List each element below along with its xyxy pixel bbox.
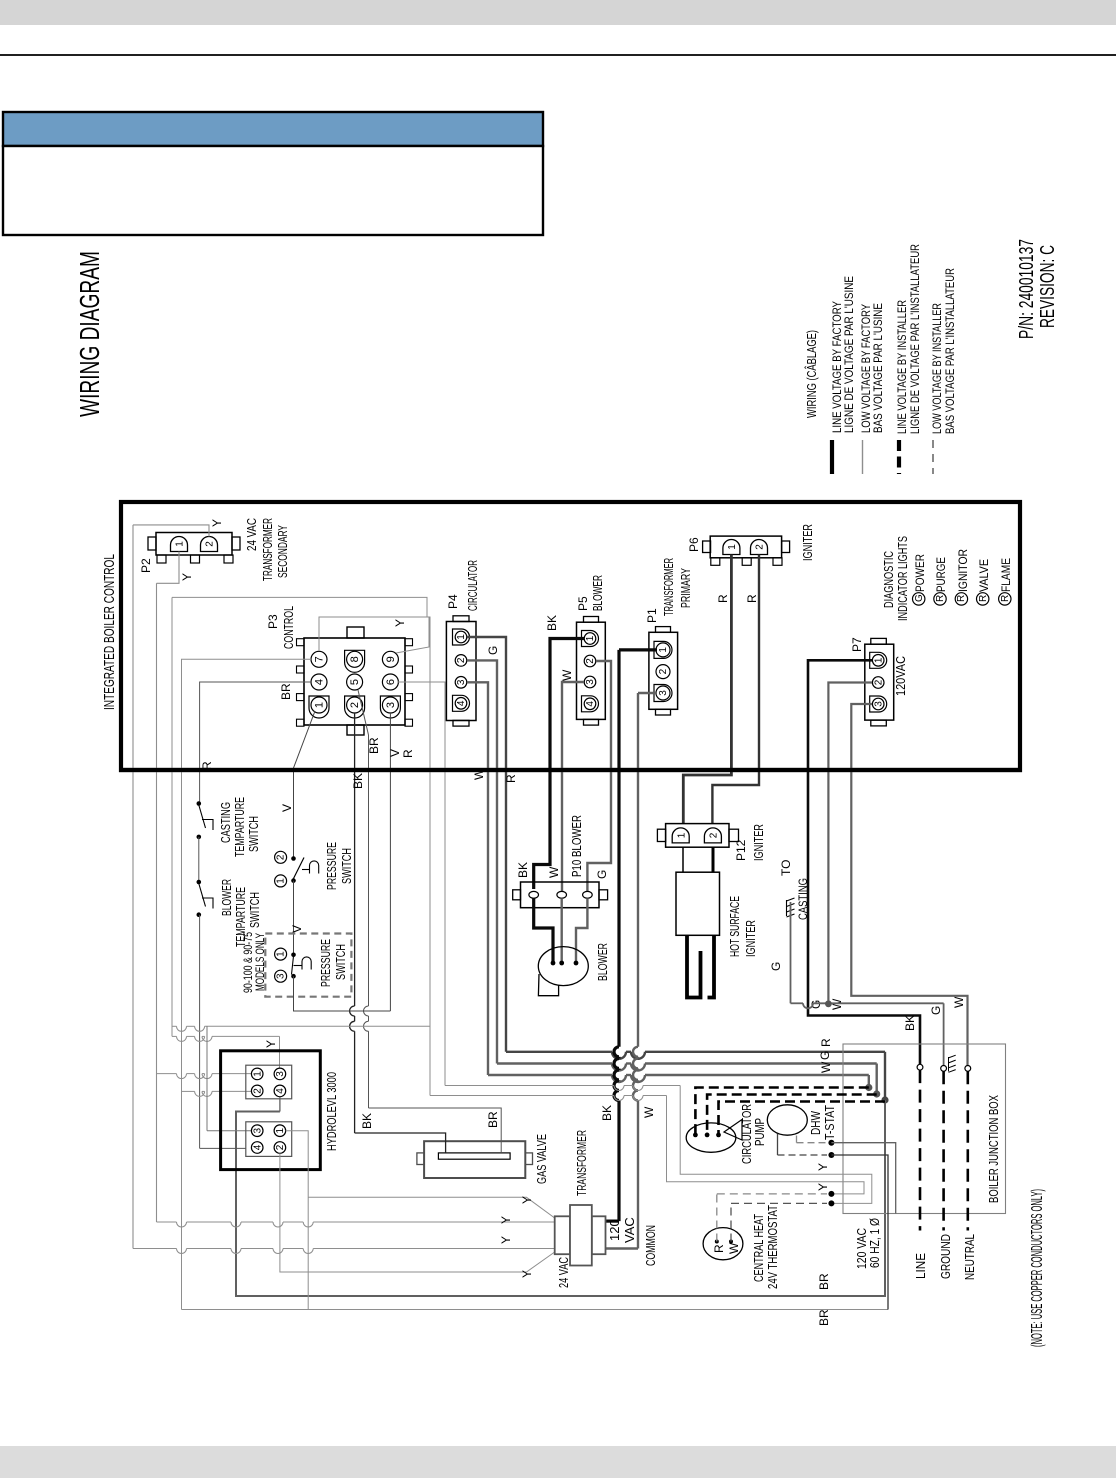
dashed wire NEUTRAL: [966, 1071, 969, 1230]
svg-text:120: 120: [607, 1219, 622, 1241]
connector P12 IGNITER: [666, 824, 729, 848]
wire Y slant to transformer top: [308, 1197, 555, 1218]
svg-text:TRANSFORMER: TRANSFORMER: [574, 1130, 589, 1196]
P1 pin 1: [654, 641, 672, 658]
P3 pin 3: [380, 696, 400, 718]
P5 pin 4: [582, 696, 599, 712]
svg-text:24 VAC: 24 VAC: [556, 1257, 571, 1288]
svg-text:W: W: [952, 996, 966, 1008]
P4 pin 2: [455, 655, 467, 667]
svg-text:REVISION: C: REVISION: C: [1037, 245, 1059, 328]
svg-text:2: 2: [252, 1088, 263, 1094]
P10 pin 1: [529, 891, 539, 898]
svg-text:BR: BR: [279, 683, 293, 700]
svg-text:P7: P7: [850, 637, 864, 652]
legend low voltage by factory sample line: [862, 440, 864, 474]
wire R6 to hydrolevel pin3 lower: [206, 1026, 208, 1130]
wire P3 pin9 Y: slant up to jog, over to left rail R3: [172, 597, 429, 653]
svg-text:GROUND: GROUND: [938, 1234, 953, 1279]
P3 pin 4: [311, 674, 327, 690]
wire P3 pin7 up and over to long descent: [319, 617, 430, 1096]
P3 pin 5: [347, 674, 363, 690]
P3 pin 2: [345, 696, 365, 718]
DHW T-STAT: [767, 1105, 807, 1135]
svg-text:SWITCH: SWITCH: [339, 848, 354, 884]
svg-text:3: 3: [385, 702, 397, 708]
svg-text:PRIMARY: PRIMARY: [678, 568, 693, 608]
svg-text:VAC: VAC: [622, 1217, 637, 1243]
svg-text:5: 5: [349, 679, 361, 685]
svg-text:G: G: [929, 1006, 943, 1015]
svg-text:BK: BK: [516, 862, 530, 878]
svg-text:1: 1: [873, 657, 884, 663]
svg-text:Y: Y: [180, 573, 194, 581]
wire bus H1 to thermostat descent: [172, 1025, 177, 1027]
wire P2 pin2 Y up-left: [133, 525, 209, 537]
wire BK into gas valve: [355, 1133, 446, 1153]
P5 pin 3: [584, 676, 596, 688]
wire rail R2 from P2.1 down: [156, 583, 158, 1222]
svg-text:BK: BK: [600, 1105, 614, 1121]
svg-text:BLOWER: BLOWER: [219, 879, 234, 916]
wire P5 pin2 to P10 pin3: [587, 661, 611, 891]
svg-text:POWER: POWER: [913, 554, 927, 592]
ground symbol at junction: [949, 1055, 956, 1072]
svg-text:G: G: [818, 1051, 832, 1060]
wire between pressure switch sections: [293, 881, 295, 955]
wire P3 pin3 V down: [389, 713, 391, 1011]
wire P4 pin1 R bus down and right to junction: [467, 637, 506, 1052]
models pressure switch pin 3: [275, 970, 287, 982]
hydrolevel 3000 box: [221, 1051, 321, 1170]
svg-text:60 HZ, 1 Ø: 60 HZ, 1 Ø: [867, 1218, 882, 1268]
svg-text:R: R: [401, 749, 415, 758]
P5 pin 2: [584, 655, 596, 667]
svg-text:WIRING (CÂBLAGE): WIRING (CÂBLAGE): [804, 330, 819, 418]
svg-text:R: R: [712, 1244, 726, 1253]
svg-text:2: 2: [276, 854, 287, 860]
pressure switch pin 2: [275, 851, 287, 863]
indicator IGNITOR: [955, 593, 967, 605]
pressure switch pin 1: [275, 875, 287, 887]
svg-text:Y: Y: [264, 1040, 278, 1048]
svg-text:W: W: [547, 866, 561, 878]
svg-text:8: 8: [349, 656, 361, 662]
wire hydrolevel lower pin2 Y down: [280, 1153, 555, 1272]
svg-text:1: 1: [276, 878, 287, 884]
wire P3 pin5 BR slant and down to gas valve: [358, 690, 369, 735]
indicator FLAME: [999, 593, 1011, 605]
P2 pin 1: [171, 537, 188, 552]
wire P1 pin1 BK down to transformer 120: [619, 648, 657, 651]
dashed wire GROUND: [942, 1071, 945, 1230]
svg-text:BLOWER: BLOWER: [595, 943, 610, 981]
wire DHW left leg dashed to dot: [777, 1134, 779, 1155]
wire P6 pin1 R down to P12 pin1: [683, 555, 731, 824]
junction dot G bus: [873, 1090, 880, 1097]
wire bottom long bus to thermostat W: [182, 1309, 889, 1311]
svg-text:3: 3: [276, 973, 287, 979]
hot surface igniter body: [676, 872, 720, 935]
svg-text:MODELS ONLY: MODELS ONLY: [253, 933, 267, 991]
svg-text:CASTING: CASTING: [218, 802, 233, 843]
svg-text:IGNITER: IGNITER: [800, 524, 815, 561]
svg-text:4: 4: [585, 701, 596, 707]
casting temparture switch: [197, 801, 202, 806]
svg-text:1: 1: [175, 541, 186, 547]
svg-text:3: 3: [456, 679, 467, 685]
svg-text:1: 1: [727, 544, 738, 550]
junction terminal GROUND: [941, 1066, 947, 1072]
P6 pin 1: [723, 540, 740, 555]
svg-text:BK: BK: [545, 615, 559, 631]
indicator VALVE: [977, 593, 989, 605]
svg-text:3: 3: [873, 701, 884, 707]
hydrolevel upper pin 4: [274, 1085, 286, 1097]
dashed wire LINE: [919, 1070, 922, 1230]
P12 pin 2: [704, 828, 721, 843]
wire P3 pin7 left to rail R4: [182, 659, 312, 1309]
connector P6 IGNITER: [710, 536, 781, 558]
svg-text:2: 2: [585, 658, 596, 664]
svg-text:3: 3: [585, 679, 596, 685]
svg-text:Y: Y: [520, 1196, 534, 1204]
svg-text:BR: BR: [817, 1309, 831, 1326]
transformer: [555, 1216, 570, 1254]
indicator PURGE: [934, 593, 946, 605]
svg-text:1: 1: [275, 1127, 286, 1133]
wire pin7 net to thermostat R (inner U): [430, 1095, 614, 1097]
wire P10 pin2 to blower: [561, 898, 563, 963]
wire bus Y to hydrolevel pin3: [172, 1035, 177, 1037]
svg-text:4: 4: [252, 1144, 263, 1150]
svg-text:TRANSFORMER: TRANSFORMER: [661, 558, 676, 616]
P7 pin 3: [870, 696, 887, 712]
svg-text:TO: TO: [779, 860, 793, 876]
wire switch rail down to hydrolevel pin 4: [199, 915, 201, 1149]
wire hydrolevel lower pin1 to bottom bus: [286, 1131, 309, 1310]
svg-text:CENTRAL HEAT: CENTRAL HEAT: [751, 1214, 766, 1282]
svg-text:3: 3: [658, 690, 669, 696]
svg-text:IGNITER: IGNITER: [743, 920, 758, 957]
junction terminal NEUTRAL: [965, 1066, 971, 1072]
svg-text:NEUTRAL: NEUTRAL: [962, 1234, 977, 1280]
P2 pin 2: [201, 537, 218, 552]
junction dot G: [825, 1000, 832, 1007]
svg-text:7: 7: [313, 656, 325, 662]
wire G from casting down to junction: [790, 902, 792, 1003]
P7 pin 2: [872, 677, 884, 689]
svg-text:2: 2: [658, 668, 669, 674]
svg-text:V: V: [388, 749, 402, 757]
svg-text:LOW VOLTAGE BY INSTALLER: LOW VOLTAGE BY INSTALLER: [930, 303, 944, 434]
svg-text:BK: BK: [903, 1015, 917, 1031]
P3 pin 7: [311, 651, 327, 667]
svg-text:BR: BR: [367, 737, 381, 754]
svg-text:W: W: [727, 1242, 741, 1254]
P10 pin 2: [557, 891, 567, 898]
svg-text:V: V: [280, 804, 294, 812]
hydrolevel lower pin 3: [251, 1125, 263, 1137]
svg-text:W: W: [560, 669, 574, 681]
90-100 models only pressure switch dashed box: [265, 934, 351, 997]
wire R net continues down to lower bus: [236, 1100, 885, 1296]
svg-text:VALVE: VALVE: [977, 559, 991, 592]
connector P7 120VAC: [865, 644, 894, 720]
connector P2: [156, 533, 232, 556]
wire P1 pin3 common down to transformer: [638, 692, 657, 694]
wire P12 pin2 to igniter: [712, 847, 715, 872]
svg-text:1: 1: [252, 1071, 263, 1077]
svg-text:HYDROLEVL 3000: HYDROLEVL 3000: [324, 1072, 339, 1151]
wire R2 branch to hydrolevel pin1: [157, 1073, 177, 1075]
wire P12 pin1 to igniter: [682, 847, 684, 872]
junction dot W bus: [865, 1084, 872, 1091]
svg-text:Y: Y: [816, 1163, 830, 1171]
svg-text:Y: Y: [393, 619, 407, 627]
svg-text:TEMPARTURE: TEMPARTURE: [232, 797, 247, 857]
blower motor: [538, 947, 588, 986]
svg-text:IGNITER: IGNITER: [751, 824, 766, 861]
P1 pin 2: [656, 665, 670, 679]
svg-text:R: R: [978, 595, 989, 602]
P4 pin 3: [455, 677, 467, 689]
P10 pin 3: [583, 891, 593, 898]
svg-text:T-STAT: T-STAT: [822, 1105, 837, 1140]
svg-text:R: R: [504, 774, 518, 783]
svg-text:PRESSURE: PRESSURE: [324, 842, 339, 890]
svg-text:SWITCH: SWITCH: [247, 892, 262, 928]
integrated boiler control box bottom edge redraw: [119, 768, 1022, 772]
svg-text:SECONDARY: SECONDARY: [275, 525, 290, 578]
P3 pin 6: [382, 674, 398, 690]
svg-text:3: 3: [275, 1071, 286, 1077]
svg-text:1: 1: [276, 951, 287, 957]
svg-text:P6: P6: [687, 537, 701, 552]
svg-text:R: R: [819, 1038, 833, 1047]
svg-text:Y: Y: [210, 519, 224, 527]
svg-text:P3: P3: [266, 614, 280, 629]
svg-text:P5: P5: [576, 596, 590, 611]
svg-text:TRANSFORMER: TRANSFORMER: [260, 518, 275, 581]
svg-text:2: 2: [873, 679, 884, 685]
svg-text:BR: BR: [817, 1273, 831, 1290]
svg-text:BAS VOLTAGE PAR L'INSTALLATEUR: BAS VOLTAGE PAR L'INSTALLATEUR: [943, 268, 957, 434]
dashed wires from bus dots to circulator pump: [695, 1088, 868, 1134]
wire P3 pin2 BK down to gas valve: [354, 713, 356, 1006]
svg-text:INDICATOR LIGHTS: INDICATOR LIGHTS: [895, 536, 910, 621]
wire P3 pin1 V slant down to pressure-switch wire: [294, 711, 316, 859]
svg-text:6: 6: [385, 679, 397, 685]
svg-text:1: 1: [313, 702, 325, 708]
svg-text:2: 2: [456, 657, 467, 663]
top rule line: [0, 54, 1116, 56]
wire R4 to hydrolevel pin2: [182, 1090, 195, 1092]
svg-text:CONTROL: CONTROL: [281, 606, 296, 649]
svg-text:SWITCH: SWITCH: [246, 816, 261, 852]
wire P10 pin3 to blower: [576, 898, 587, 963]
svg-text:BLOWER: BLOWER: [590, 575, 605, 611]
P4 pin 1: [453, 629, 470, 645]
svg-text:G: G: [769, 962, 783, 971]
wire rail R1 from P2.2 to transformer bus: [132, 525, 134, 1249]
hydrolevel lower pin 4: [251, 1142, 263, 1154]
svg-text:IGNITOR: IGNITOR: [956, 549, 970, 592]
svg-text:W: W: [642, 1106, 656, 1118]
gas valve: [424, 1141, 525, 1178]
P5 pin 1: [582, 631, 599, 647]
svg-text:BK: BK: [351, 773, 365, 789]
svg-text:2: 2: [709, 832, 720, 838]
svg-text:BAS VOLTAGE PAR L'USINE: BAS VOLTAGE PAR L'USINE: [871, 303, 885, 433]
circulator pump: [686, 1123, 736, 1152]
wire G horizontal to junction box ground: [791, 1002, 804, 1004]
wire P3 pin6 R right and down: [398, 682, 445, 1086]
svg-text:P4: P4: [446, 594, 460, 609]
svg-text:24 VAC: 24 VAC: [244, 518, 259, 551]
hydrolevel upper pin 3: [274, 1068, 286, 1080]
svg-text:120VAC: 120VAC: [893, 656, 908, 696]
central heat thermostat: [703, 1228, 743, 1260]
wire P3 pin4 BR left to switch rail: [200, 682, 311, 804]
header table blue cell: [3, 112, 543, 146]
svg-text:P2: P2: [139, 558, 153, 573]
svg-text:PURGE: PURGE: [934, 557, 948, 592]
P7 pin 1: [870, 652, 887, 668]
hydrolevel upper pin 1: [251, 1068, 263, 1080]
svg-text:4: 4: [275, 1088, 286, 1094]
wire rail R3 down: [171, 597, 173, 1036]
header table white cell: [3, 146, 543, 235]
P4 pin 4: [453, 695, 470, 711]
wire P4 pin2 G bus: [467, 660, 497, 1063]
junction terminal LINE: [917, 1064, 923, 1070]
wire solid black to lower bus: [831, 1155, 888, 1310]
wire solid to junction box: [831, 1143, 895, 1214]
svg-text:R: R: [935, 595, 946, 602]
svg-text:G: G: [486, 646, 500, 655]
P3 pin 1: [309, 696, 329, 718]
svg-text:LIGNE DE VOLTAGE PAR L'INSTALL: LIGNE DE VOLTAGE PAR L'INSTALLATEUR: [908, 244, 922, 434]
svg-text:2: 2: [205, 541, 216, 547]
wire P7 pin2 down to ground junction dot: [828, 683, 872, 1001]
svg-text:Y: Y: [520, 1270, 534, 1278]
svg-text:P1: P1: [645, 608, 659, 623]
svg-text:W: W: [819, 1061, 833, 1073]
svg-text:Y: Y: [499, 1236, 513, 1244]
hydrolevel lower pin 1: [274, 1125, 286, 1137]
svg-text:R: R: [716, 594, 730, 603]
wire DHW right leg dashed to dot: [796, 1136, 798, 1143]
svg-text:Y: Y: [816, 1183, 830, 1191]
junction dot R bus: [881, 1096, 888, 1103]
svg-text:DHW: DHW: [808, 1110, 823, 1135]
svg-text:Y: Y: [499, 1216, 513, 1224]
svg-text:WIRING DIAGRAM: WIRING DIAGRAM: [74, 251, 105, 417]
P3 pin 8: [345, 650, 365, 672]
integrated boiler control box: [121, 502, 1020, 770]
svg-text:LINE VOLTAGE BY INSTALLER: LINE VOLTAGE BY INSTALLER: [895, 300, 909, 434]
svg-text:4: 4: [456, 700, 467, 706]
igniter element: [687, 935, 701, 997]
svg-text:CIRCULATOR: CIRCULATOR: [465, 560, 480, 611]
P3 pin 9: [382, 651, 398, 667]
svg-text:HOT SURFACE: HOT SURFACE: [727, 896, 742, 957]
svg-text:2: 2: [755, 544, 766, 550]
svg-text:24V THERMOSTAT: 24V THERMOSTAT: [765, 1205, 780, 1289]
P12 pin 1: [672, 828, 689, 843]
connector P5 BLOWER: [577, 622, 606, 719]
svg-text:PRESSURE: PRESSURE: [318, 939, 333, 987]
svg-text:LINE: LINE: [913, 1253, 928, 1279]
wire BR into gas valve: [369, 1108, 502, 1153]
bottom gray banner: [0, 1446, 1116, 1478]
wire P5 pin1 BK to P10: [534, 639, 584, 890]
top gray banner: [0, 0, 1116, 25]
svg-text:R: R: [1000, 595, 1011, 602]
svg-text:R: R: [745, 594, 759, 603]
indicator POWER: [913, 593, 925, 605]
hydrolevel upper pin 2: [251, 1085, 263, 1097]
svg-text:3: 3: [252, 1127, 263, 1133]
svg-text:GAS VALVE: GAS VALVE: [534, 1134, 549, 1184]
svg-text:LIGNE DE VOLTAGE PAR L'USINE: LIGNE DE VOLTAGE PAR L'USINE: [842, 276, 856, 433]
svg-text:1: 1: [585, 635, 596, 641]
wire P4 pin3 W bus: [467, 682, 488, 1075]
svg-text:P10 BLOWER: P10 BLOWER: [569, 815, 584, 877]
wire 24vac bus top: [157, 1221, 177, 1223]
svg-text:BK: BK: [360, 1113, 374, 1129]
svg-text:1: 1: [658, 647, 669, 653]
svg-text:4: 4: [313, 679, 325, 685]
wire pin6 net to thermostat W (outer U): [445, 1085, 614, 1087]
wire pressure switch to V trunk: [294, 976, 391, 1011]
svg-text:INTEGRATED BOILER CONTROL: INTEGRATED BOILER CONTROL: [101, 554, 118, 710]
svg-text:1: 1: [676, 832, 687, 838]
svg-text:SWITCH: SWITCH: [333, 944, 348, 980]
svg-text:1: 1: [456, 634, 467, 640]
svg-text:G: G: [595, 870, 609, 879]
svg-text:V: V: [290, 925, 304, 933]
wire P6 pin2 R down to P12 pin2: [712, 555, 759, 824]
svg-text:2: 2: [349, 702, 361, 708]
svg-text:(NOTE: USE COPPER CONDUCTORS O: (NOTE: USE COPPER CONDUCTORS ONLY): [1029, 1189, 1046, 1347]
connector P3 CONTROL: [304, 638, 405, 725]
svg-text:P/N: 240010137: P/N: 240010137: [1016, 239, 1038, 339]
svg-text:FLAME: FLAME: [999, 558, 1013, 592]
svg-text:DIAGNOSTIC: DIAGNOSTIC: [881, 551, 896, 608]
svg-text:9: 9: [385, 656, 397, 662]
models pressure switch pin 1: [275, 948, 287, 960]
connector P10 BLOWER: [521, 882, 600, 908]
connector P4 CIRCULATOR: [446, 622, 476, 721]
svg-text:G: G: [914, 594, 925, 602]
wire thermostat R dashed: [716, 1194, 718, 1242]
svg-text:PUMP: PUMP: [752, 1118, 767, 1146]
wire P5 pin3 W to P10: [562, 682, 584, 891]
blower temparture switch: [197, 880, 202, 885]
wire 24vac bus bottom: [133, 1248, 177, 1250]
legend line voltage by installer sample line: [897, 440, 901, 474]
svg-text:COMMON: COMMON: [643, 1225, 658, 1266]
connector P1 TRANSFORMER PRIMARY: [649, 632, 678, 709]
wire thermostat W dashed: [730, 1203, 732, 1241]
svg-text:BR: BR: [486, 1111, 500, 1128]
P1 pin 3: [654, 685, 672, 702]
boiler junction box: [843, 1044, 1006, 1214]
svg-text:BOILER JUNCTION BOX: BOILER JUNCTION BOX: [986, 1095, 1001, 1203]
svg-text:CASTING: CASTING: [796, 878, 810, 920]
